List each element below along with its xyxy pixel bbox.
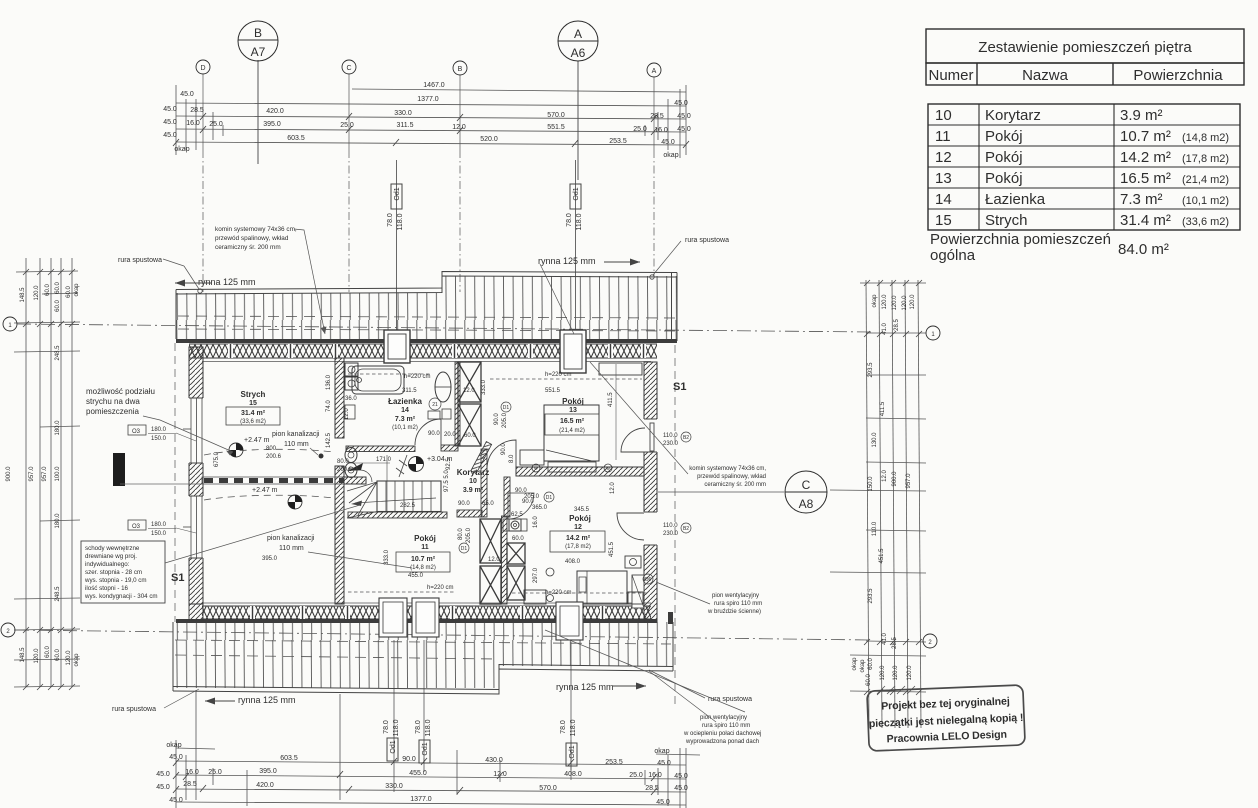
svg-text:120.0: 120.0 — [882, 294, 888, 310]
svg-text:118.0: 118.0 — [393, 719, 400, 736]
svg-text:411.5: 411.5 — [608, 392, 614, 407]
bath/shaft wall vertical — [455, 362, 460, 446]
svg-text:551.5: 551.5 — [547, 124, 565, 131]
door wedge strych — [347, 463, 363, 471]
svg-text:11: 11 — [421, 544, 429, 551]
svg-text:230.0: 230.0 — [663, 441, 679, 447]
svg-text:78.0: 78.0 — [566, 213, 573, 227]
svg-text:45.0: 45.0 — [657, 760, 671, 767]
proposed division wall (dashed) — [202, 477, 366, 484]
rynna arrows — [175, 259, 646, 705]
section marker A/A6 — [558, 21, 598, 180]
svg-text:wyprowadzona ponad dach: wyprowadzona ponad dach — [685, 739, 759, 745]
door opening right (to room 13) — [643, 419, 659, 452]
axis bubble 1 left — [3, 317, 17, 331]
svg-text:603.5: 603.5 — [287, 135, 305, 142]
svg-text:A6: A6 — [571, 46, 586, 60]
svg-text:74.0: 74.0 — [326, 400, 332, 412]
svg-text:455.0: 455.0 — [408, 573, 424, 579]
window W2 left — [183, 496, 204, 558]
svg-text:25.0: 25.0 — [208, 769, 222, 776]
grid axis lines (dashed down to roof) — [203, 74, 654, 292]
svg-text:282.5: 282.5 — [400, 503, 416, 509]
svg-text:120.0: 120.0 — [893, 665, 899, 681]
svg-text:12.0: 12.0 — [882, 470, 888, 482]
svg-text:60.0: 60.0 — [868, 658, 874, 670]
svg-text:90.0: 90.0 — [494, 413, 500, 425]
svg-text:16.0: 16.0 — [533, 516, 539, 528]
svg-text:311.5: 311.5 — [397, 122, 414, 129]
svg-text:60.0: 60.0 — [55, 300, 61, 312]
svg-text:okap: okap — [860, 659, 866, 673]
svg-text:(33,6 m2): (33,6 m2) — [240, 419, 266, 425]
svg-text:h=220 cm: h=220 cm — [427, 585, 454, 591]
svg-text:(10,1 m2): (10,1 m2) — [392, 425, 418, 431]
svg-text:45.0: 45.0 — [674, 773, 688, 780]
svg-text:14: 14 — [935, 191, 952, 208]
svg-text:100.0: 100.0 — [55, 466, 61, 482]
svg-text:395.0: 395.0 — [259, 768, 277, 775]
svg-text:60.0: 60.0 — [45, 646, 51, 658]
section line C-A8 — [658, 491, 784, 493]
svg-text:C: C — [802, 478, 811, 492]
svg-text:pomieszczenia: pomieszczenia — [86, 407, 139, 416]
svg-text:78.0: 78.0 — [383, 720, 390, 734]
svg-text:S1: S1 — [673, 381, 686, 393]
svg-text:Pokój: Pokój — [569, 514, 591, 523]
svg-text:45.0: 45.0 — [163, 119, 177, 126]
svg-text:16.5 m²: 16.5 m² — [560, 418, 585, 425]
svg-text:10.7 m²: 10.7 m² — [411, 556, 436, 563]
svg-text:25.0: 25.0 — [340, 122, 354, 129]
svg-text:90.0: 90.0 — [458, 501, 470, 507]
svg-text:45.0: 45.0 — [169, 797, 183, 804]
svg-text:957.0: 957.0 — [29, 466, 35, 482]
svg-text:90.0: 90.0 — [402, 756, 416, 763]
svg-text:w ociepleniu połaci dachowej: w ociepleniu połaci dachowej — [683, 731, 761, 737]
svg-text:komin systemowy 74x36 cm,: komin systemowy 74x36 cm, — [689, 466, 766, 472]
svg-text:wys. kondygnacji - 304 cm: wys. kondygnacji - 304 cm — [84, 593, 158, 600]
svg-text:205.0: 205.0 — [466, 527, 472, 543]
svg-text:45.0: 45.0 — [163, 106, 177, 113]
axis bubble 2 left — [1, 623, 15, 637]
svg-text:3.9 m²: 3.9 m² — [463, 487, 484, 494]
svg-text:408.0: 408.0 — [565, 559, 581, 565]
svg-text:41.0: 41.0 — [882, 323, 888, 335]
svg-text:330.0: 330.0 — [394, 110, 412, 117]
svg-text:Powierzchnia: Powierzchnia — [1133, 67, 1223, 84]
svg-text:15: 15 — [249, 400, 257, 407]
svg-text:pion wentylacyjny: pion wentylacyjny — [712, 593, 759, 599]
svg-text:rura spustowa: rura spustowa — [685, 237, 729, 244]
svg-text:150.0: 150.0 — [151, 531, 167, 537]
leader lines — [143, 229, 745, 722]
roof windows bottom — [379, 598, 583, 640]
svg-text:okap: okap — [74, 653, 80, 667]
timber posts (white gaps) — [228, 344, 646, 358]
svg-text:420.0: 420.0 — [266, 108, 284, 115]
svg-text:60.0: 60.0 — [66, 286, 72, 298]
svg-text:komin systemowy 74x36 cm,: komin systemowy 74x36 cm, — [215, 226, 297, 233]
svg-text:45.0: 45.0 — [656, 799, 670, 806]
svg-text:142.5: 142.5 — [326, 432, 332, 448]
black chimney bar left — [113, 453, 125, 486]
svg-text:21: 21 — [432, 402, 438, 408]
svg-text:253.5: 253.5 — [609, 138, 627, 145]
svg-text:365.0: 365.0 — [532, 505, 548, 511]
svg-text:D: D — [200, 65, 205, 72]
left dimension block — [1, 258, 80, 690]
svg-text:okap: okap — [654, 748, 669, 755]
svg-text:60.0: 60.0 — [45, 284, 51, 296]
section marker C/A8 — [785, 471, 827, 513]
svg-text:230.0: 230.0 — [663, 531, 679, 537]
door arcs — [415, 419, 654, 540]
svg-text:13: 13 — [935, 170, 952, 187]
bottom roof band — [173, 619, 673, 694]
copyright stamp — [867, 685, 1025, 751]
bottom dimension block — [156, 640, 700, 808]
svg-text:28.5: 28.5 — [892, 637, 898, 649]
svg-text:D1: D1 — [461, 546, 468, 552]
svg-text:1377.0: 1377.0 — [410, 796, 432, 803]
svg-text:120.0: 120.0 — [910, 294, 916, 310]
svg-text:pion kanalizacji: pion kanalizacji — [272, 431, 320, 438]
svg-text:11: 11 — [935, 128, 951, 145]
low window room 12 (inboard) — [632, 575, 644, 608]
svg-text:420.0: 420.0 — [256, 782, 274, 789]
svg-text:1377.0: 1377.0 — [417, 96, 439, 103]
svg-text:45.0: 45.0 — [180, 91, 194, 98]
svg-text:10: 10 — [935, 107, 952, 124]
svg-text:31.4 m²: 31.4 m² — [1120, 212, 1171, 229]
svg-text:+2.47 m: +2.47 m — [244, 437, 270, 444]
svg-text:110.0: 110.0 — [663, 433, 678, 439]
svg-text:957.0: 957.0 — [906, 473, 912, 489]
svg-text:118.0: 118.0 — [425, 719, 432, 736]
svg-text:118.0: 118.0 — [576, 213, 583, 230]
svg-text:28.5: 28.5 — [650, 113, 664, 120]
svg-text:45.0: 45.0 — [156, 771, 170, 778]
svg-text:45.0: 45.0 — [674, 785, 688, 792]
svg-text:przewód spalinowy, wkład: przewód spalinowy, wkład — [697, 474, 766, 480]
svg-text:603.5: 603.5 — [280, 755, 298, 762]
svg-text:900.0: 900.0 — [892, 471, 898, 487]
D3 boxed labels — [128, 425, 176, 537]
bed room 12 — [524, 556, 643, 604]
svg-text:205.0: 205.0 — [502, 412, 508, 428]
svg-text:rura spustowa: rura spustowa — [112, 706, 156, 713]
svg-text:+2.47 m: +2.47 m — [252, 487, 278, 494]
svg-text:180.0: 180.0 — [55, 420, 61, 436]
svg-text:80.0: 80.0 — [337, 459, 349, 465]
axis 1 dash-dot line — [17, 324, 871, 332]
svg-text:60.0: 60.0 — [512, 536, 524, 542]
svg-text:120.0: 120.0 — [34, 648, 40, 664]
svg-text:B: B — [458, 66, 463, 73]
svg-text:345.5: 345.5 — [574, 507, 590, 513]
wall corridor/room12 vertical — [504, 477, 510, 517]
svg-text:w bruździe ścienne): w bruździe ścienne) — [707, 609, 761, 615]
B2 door labels right — [663, 433, 679, 537]
svg-text:Zestawienie pomieszczeń piętra: Zestawienie pomieszczeń piętra — [978, 39, 1192, 56]
svg-text:333.0: 333.0 — [384, 549, 390, 565]
small circled labels D1 etc — [429, 398, 554, 553]
eave dashed lines — [175, 343, 675, 705]
svg-text:B: B — [254, 26, 262, 40]
vent shaft 2 (X boxes) — [480, 516, 525, 604]
svg-text:330.0: 330.0 — [385, 783, 403, 790]
svg-text:120.0: 120.0 — [907, 665, 913, 681]
svg-text:Od1: Od1 — [390, 740, 397, 753]
corridor bottom wall — [457, 510, 482, 517]
band end cap — [668, 612, 673, 624]
svg-text:800: 800 — [266, 446, 277, 452]
right dimension block — [785, 280, 940, 728]
svg-text:28.5: 28.5 — [190, 107, 204, 114]
svg-text:pion kanalizacji: pion kanalizacji — [267, 535, 315, 542]
svg-text:14: 14 — [401, 407, 409, 414]
svg-text:h=220 cm: h=220 cm — [404, 374, 431, 380]
washer boxes — [345, 363, 358, 376]
svg-text:28.5: 28.5 — [645, 785, 659, 792]
window W1 left — [183, 398, 204, 463]
svg-text:520.0: 520.0 — [480, 136, 498, 143]
door leaf korytarz/p13 (hatched, open) — [471, 442, 492, 474]
svg-text:31.4 m²: 31.4 m² — [241, 410, 266, 417]
svg-text:ilość stopni - 16: ilość stopni - 16 — [85, 585, 129, 592]
svg-text:60.0: 60.0 — [464, 433, 476, 439]
svg-text:957.0: 957.0 — [42, 466, 48, 482]
svg-text:430.0: 430.0 — [485, 757, 503, 764]
top dim labels — [163, 82, 691, 159]
svg-text:Od1: Od1 — [569, 745, 576, 758]
svg-text:120.0: 120.0 — [880, 665, 886, 681]
svg-text:okap: okap — [174, 146, 189, 153]
top roof band — [176, 272, 677, 344]
svg-text:148.5: 148.5 — [20, 647, 26, 663]
svg-text:333.0: 333.0 — [481, 379, 487, 395]
svg-text:110.0: 110.0 — [663, 523, 678, 529]
svg-text:okap: okap — [872, 294, 878, 308]
svg-text:551.5: 551.5 — [545, 388, 561, 394]
svg-text:120.0: 120.0 — [892, 295, 898, 311]
svg-text:Strych: Strych — [985, 212, 1028, 229]
top insulated wall — [189, 344, 657, 362]
svg-text:okap: okap — [852, 657, 858, 671]
svg-text:25.0: 25.0 — [629, 772, 643, 779]
svg-text:150.0: 150.0 — [868, 476, 874, 492]
svg-text:90.0: 90.0 — [501, 443, 507, 455]
stair walls — [346, 446, 415, 452]
chimney room13 (over wall) — [560, 330, 586, 373]
svg-text:B2: B2 — [683, 526, 689, 532]
svg-text:12.0: 12.0 — [344, 408, 350, 420]
svg-text:45.0: 45.0 — [677, 126, 691, 133]
svg-text:ceramiczny śr. 200 mm: ceramiczny śr. 200 mm — [215, 244, 281, 251]
svg-text:8.0: 8.0 — [509, 454, 515, 463]
svg-text:293.5: 293.5 — [868, 588, 874, 604]
svg-text:180.0: 180.0 — [151, 427, 167, 433]
svg-text:395.0: 395.0 — [262, 556, 278, 562]
svg-text:45.0: 45.0 — [674, 100, 688, 107]
grid bubbles D C B A — [196, 60, 661, 77]
svg-text:(21,4 m2): (21,4 m2) — [1182, 174, 1229, 186]
svg-text:wys. stopnia - 19,0 cm: wys. stopnia - 19,0 cm — [84, 577, 147, 584]
svg-text:rynna 125 mm: rynna 125 mm — [238, 695, 296, 705]
svg-text:(14,8 m2): (14,8 m2) — [1182, 132, 1229, 144]
schody box — [81, 541, 165, 603]
svg-text:(14,8 m2): (14,8 m2) — [410, 565, 436, 571]
svg-text:rynna 125 mm: rynna 125 mm — [538, 256, 596, 266]
bathroom fixtures — [345, 363, 451, 478]
svg-text:(17,8 m2): (17,8 m2) — [565, 544, 591, 550]
svg-text:(10,1 m2): (10,1 m2) — [1182, 195, 1229, 207]
svg-text:78.0: 78.0 — [415, 720, 422, 734]
svg-text:okap: okap — [663, 152, 678, 159]
svg-text:62.5: 62.5 — [511, 512, 523, 518]
svg-text:293.5: 293.5 — [868, 362, 874, 378]
svg-text:14.2 m²: 14.2 m² — [1120, 149, 1171, 166]
svg-text:D1: D1 — [546, 495, 553, 501]
svg-text:110.0: 110.0 — [872, 521, 878, 536]
svg-text:45.0: 45.0 — [661, 139, 675, 146]
svg-text:13: 13 — [569, 407, 577, 414]
svg-text:ceramiczny śr. 200 mm: ceramiczny śr. 200 mm — [704, 482, 766, 488]
washbasin oval — [435, 372, 451, 402]
svg-text:Od1: Od1 — [394, 187, 401, 200]
svg-text:25.0: 25.0 — [633, 126, 647, 133]
svg-text:A: A — [574, 27, 582, 41]
vent shaft 1 (X boxes) — [458, 362, 481, 446]
svg-text:Pokój: Pokój — [562, 397, 584, 406]
door opening right (to room 12) — [643, 512, 659, 545]
svg-text:570.0: 570.0 — [547, 112, 565, 119]
svg-text:16.0: 16.0 — [648, 772, 662, 779]
svg-text:O3: O3 — [132, 429, 141, 435]
svg-text:indywidualnego:: indywidualnego: — [85, 561, 130, 568]
svg-text:7.3 m²: 7.3 m² — [1120, 191, 1163, 208]
room labels — [171, 381, 686, 584]
svg-text:110 mm: 110 mm — [279, 545, 304, 552]
svg-text:60.0: 60.0 — [866, 674, 872, 686]
svg-text:Pokój: Pokój — [985, 149, 1023, 166]
svg-text:przewód spalinowy, wkład: przewód spalinowy, wkład — [215, 235, 289, 242]
svg-text:Korytarz: Korytarz — [457, 468, 489, 477]
svg-text:rura spiro 110 mm: rura spiro 110 mm — [702, 723, 750, 729]
svg-text:92.5: 92.5 — [446, 458, 452, 470]
svg-text:150.0: 150.0 — [151, 436, 167, 442]
svg-text:200.6: 200.6 — [337, 467, 353, 473]
dimension chain lines — [176, 85, 686, 158]
svg-text:148.5: 148.5 — [20, 287, 26, 303]
svg-text:rynna 125 mm: rynna 125 mm — [198, 277, 256, 287]
axis bubble 2 right — [923, 634, 937, 648]
svg-text:12.0: 12.0 — [488, 557, 500, 563]
svg-text:45.0: 45.0 — [677, 113, 691, 120]
walking line with arrow — [355, 498, 436, 503]
svg-text:A7: A7 — [251, 45, 266, 59]
svg-text:45.0: 45.0 — [169, 754, 183, 761]
svg-text:Łazienka: Łazienka — [985, 191, 1046, 208]
svg-text:15: 15 — [935, 212, 952, 229]
svg-text:(17,8 m2): (17,8 m2) — [1182, 153, 1229, 165]
svg-text:Korytarz: Korytarz — [985, 107, 1041, 124]
svg-text:60.0: 60.0 — [55, 282, 61, 294]
svg-text:okap: okap — [74, 283, 80, 297]
svg-text:900.0: 900.0 — [6, 466, 12, 482]
svg-text:rura spiro 110 mm: rura spiro 110 mm — [714, 601, 762, 607]
svg-text:200.6: 200.6 — [266, 454, 282, 460]
svg-text:Łazienka: Łazienka — [388, 397, 422, 406]
svg-text:675.0: 675.0 — [214, 451, 220, 467]
svg-text:395.0: 395.0 — [263, 121, 281, 128]
svg-text:118.0: 118.0 — [570, 719, 577, 736]
section marker B/A7 — [238, 21, 278, 164]
svg-text:schody wewnętrzne: schody wewnętrzne — [85, 545, 140, 552]
svg-text:180.0: 180.0 — [55, 513, 61, 529]
svg-text:408.0: 408.0 — [564, 771, 582, 778]
interior dimension texts — [214, 364, 616, 596]
top dimension block — [163, 21, 691, 332]
svg-text:120.0: 120.0 — [34, 285, 40, 301]
svg-text:12.0: 12.0 — [463, 388, 475, 394]
svg-text:253.5: 253.5 — [605, 759, 623, 766]
room schedule table — [926, 29, 1244, 230]
svg-text:20.0: 20.0 — [444, 432, 456, 438]
svg-text:Strych: Strych — [241, 390, 266, 399]
svg-text:110 mm: 110 mm — [284, 441, 309, 448]
svg-text:Pokój: Pokój — [985, 128, 1023, 145]
break line — [399, 455, 407, 477]
landing edge — [348, 470, 372, 482]
kitchen annex boxes — [503, 519, 527, 531]
svg-text:12.0: 12.0 — [493, 771, 507, 778]
svg-text:60.0: 60.0 — [55, 649, 61, 661]
stairs — [347, 455, 441, 518]
winder treads — [347, 482, 377, 491]
svg-text:248.5: 248.5 — [55, 345, 61, 361]
svg-text:451.5: 451.5 — [879, 548, 885, 564]
svg-text:16.0: 16.0 — [186, 120, 200, 127]
svg-text:(21,4 m2): (21,4 m2) — [559, 428, 585, 434]
svg-text:rynna 125 mm: rynna 125 mm — [556, 682, 614, 692]
annotation texts with leaders — [86, 226, 766, 745]
svg-text:szer. stopnia - 28 cm: szer. stopnia - 28 cm — [85, 569, 142, 576]
svg-text:311.5: 311.5 — [402, 388, 417, 394]
svg-text:3.9 m²: 3.9 m² — [1120, 107, 1163, 124]
svg-text:570.0: 570.0 — [539, 785, 557, 792]
svg-text:16.0: 16.0 — [654, 127, 668, 134]
window axis markers Od1 (top) — [391, 160, 581, 332]
interior wall Strych/bath vertical — [335, 358, 344, 604]
svg-text:12: 12 — [574, 524, 582, 531]
right outer wall — [632, 362, 659, 622]
svg-text:80.0: 80.0 — [458, 528, 464, 540]
svg-text:Od1: Od1 — [422, 742, 429, 755]
wc — [345, 448, 357, 463]
svg-text:B2: B2 — [683, 435, 689, 441]
chimney bath (over wall) — [384, 330, 410, 363]
wall between corridor and room 13 — [471, 442, 644, 517]
svg-text:12: 12 — [935, 149, 952, 166]
svg-text:12.0: 12.0 — [610, 482, 616, 494]
svg-text:rura spustowa: rura spustowa — [118, 257, 162, 264]
svg-text:248.5: 248.5 — [55, 586, 61, 602]
svg-text:411.5: 411.5 — [880, 401, 886, 416]
svg-text:Pokój: Pokój — [414, 534, 436, 543]
level markers — [229, 443, 424, 509]
